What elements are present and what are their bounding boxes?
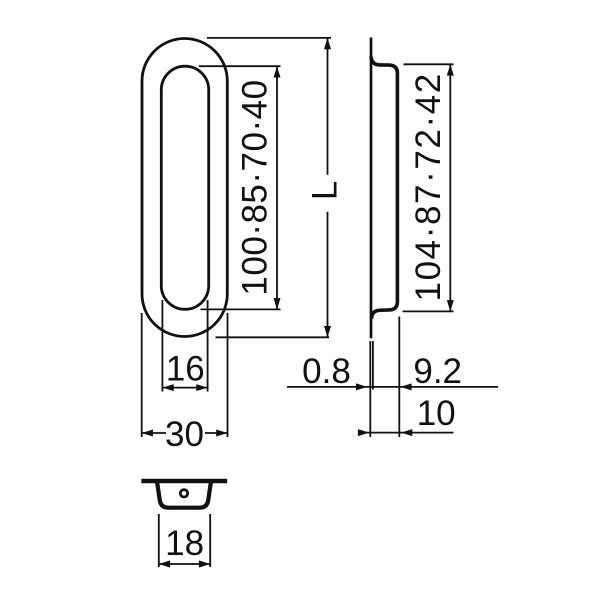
extension lines for 16	[162, 300, 207, 392]
arrow left 18	[159, 560, 170, 567]
arrow right 18	[199, 560, 210, 567]
front view outer stadium outline	[142, 39, 227, 337]
arrow left 16	[162, 384, 173, 391]
bottom view center hole ring	[180, 490, 187, 497]
dimension line 100·85·70·40	[276, 66, 278, 309]
extension lines for 30	[142, 313, 228, 437]
svg-text:0.8: 0.8	[302, 352, 351, 391]
side view cup profile	[371, 57, 397, 319]
extension line from cup bottom	[403, 310, 454, 312]
bottom view flange bar	[141, 479, 227, 484]
arrow up L top	[324, 38, 331, 49]
dimension line 16	[162, 387, 207, 389]
svg-text:L: L	[306, 181, 345, 200]
svg-text:16: 16	[166, 349, 205, 388]
extension lines for 18	[159, 514, 210, 567]
svg-text:30: 30	[165, 415, 204, 454]
extension line from inner top	[199, 65, 281, 67]
svg-text:18: 18	[165, 524, 204, 563]
svg-text:104·87·72·42: 104·87·72·42	[409, 72, 448, 301]
arrow right 10	[358, 429, 369, 436]
arrow left 30	[142, 430, 153, 437]
dimension line 30 (broken for label)	[142, 432, 228, 434]
arrow up 100dim top	[274, 66, 281, 77]
svg-text:100·85·70·40: 100·85·70·40	[235, 79, 274, 295]
dimension line L (broken for label)	[327, 38, 329, 337]
arrow right 16	[196, 384, 207, 391]
arrow down 104dim bottom	[447, 300, 454, 311]
dimension line 10	[359, 432, 454, 434]
dimension line 104·87·72·42	[449, 64, 451, 311]
extension line from inner bottom	[201, 308, 281, 310]
arrow right 0.8	[356, 383, 367, 390]
bottom view cup outline	[157, 482, 211, 508]
extension line from outer bottom	[216, 336, 330, 338]
arrow left 9.2	[400, 383, 411, 390]
side view flange face line	[370, 38, 373, 339]
extension line below flange (front face)	[369, 341, 371, 437]
dimension line 18	[159, 563, 210, 565]
arrow up 104dim top	[447, 64, 454, 75]
svg-text:10: 10	[417, 394, 456, 433]
arrow down 100dim bottom	[274, 298, 281, 309]
front view inner stadium (recess cutout)	[161, 66, 208, 309]
extension line from cup top	[404, 63, 454, 65]
arrow down L bottom	[324, 326, 331, 337]
dimension line 0.8 / 9.2	[287, 386, 498, 388]
arrow right 30	[216, 430, 227, 437]
svg-text:9.2: 9.2	[413, 352, 462, 391]
arrow left 10	[401, 429, 412, 436]
extension line below flange (back face)	[372, 341, 374, 390]
extension line from outer top	[207, 37, 331, 39]
extension line from cup back	[398, 317, 400, 438]
